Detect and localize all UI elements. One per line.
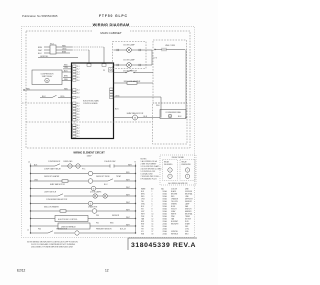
wire labels left of P13 (38, 47, 43, 55)
wire color code table rows (141, 190, 193, 236)
svg-text:J4-2: J4-2 (77, 128, 80, 130)
condenser fan motor M2 (160, 110, 186, 119)
svg-text:YEL: YEL (141, 201, 144, 203)
svg-text:1.5A RUN CAP: 1.5A RUN CAP (104, 160, 116, 163)
svg-text:318045339 REV.A: 318045339 REV.A (131, 242, 196, 249)
wire lights bus (152, 50, 158, 65)
svg-text:J3-5: J3-5 (77, 114, 80, 116)
svg-text:ORG: ORG (62, 48, 67, 50)
svg-text:P60: P60 (156, 105, 159, 107)
board left pin header J1 (73, 65, 76, 81)
svg-text:WHT: WHT (126, 187, 130, 189)
svg-text:J1-3: J1-3 (77, 71, 80, 73)
svg-text:J3-3: J3-3 (77, 108, 80, 110)
ladder right rail N (135, 162, 137, 234)
svg-text:GROUND: GROUND (185, 191, 193, 193)
board left pin labels J1 (77, 66, 80, 82)
svg-text:CONTROL BOARD: CONTROL BOARD (83, 102, 98, 105)
svg-text:Publication No 5995523695: Publication No 5995523695 (22, 14, 58, 18)
legend relay detail A (163, 160, 178, 181)
svg-text:2: 2 (170, 176, 171, 178)
svg-text:J1-2: J1-2 (77, 69, 80, 71)
svg-text:1: 1 (170, 170, 171, 172)
svg-text:J4-4: J4-4 (77, 133, 80, 135)
svg-text:DOOR LAMP: DOOR LAMP (123, 43, 135, 46)
wire P13 row2 (44, 48, 89, 50)
svg-text:RED: RED (64, 88, 69, 90)
svg-text:FTF50 GLPC: FTF50 GLPC (99, 14, 128, 18)
svg-text:WHT: WHT (126, 179, 130, 181)
svg-text:2: 2 (152, 194, 153, 196)
rung 7 mullion heater circuit (30, 205, 136, 213)
svg-text:BLK-18: BLK-18 (120, 229, 126, 231)
legend connector chart dotted box (160, 155, 196, 185)
svg-text:RED: RED (64, 79, 69, 81)
svg-text:DE-ENERG: DE-ENERG (164, 164, 173, 166)
svg-text:RED: RED (62, 45, 67, 47)
part number block frame (128, 238, 197, 250)
rung 8 control circuit (30, 215, 136, 222)
wire drop to board pin top x104 (103, 47, 105, 63)
wire compressor to board upper (62, 70, 72, 72)
svg-text:115V: 115V (87, 156, 92, 158)
rung 9 sensor circuit (30, 222, 136, 229)
svg-text:LIGHT SWITCH: LIGHT SWITCH (44, 191, 57, 193)
svg-text:J1-6: J1-6 (77, 80, 80, 82)
rung 10 thermistor circuit (27, 229, 136, 236)
svg-text:8 POLARIZED PLUG: 8 POLARIZED PLUG (141, 178, 158, 181)
svg-text:P60: P60 (38, 229, 41, 231)
svg-text:DEFROST HEATER: DEFROST HEATER (44, 175, 60, 178)
svg-text:OVERLOAD: OVERLOAD (63, 160, 73, 163)
svg-text:J3-4: J3-4 (77, 111, 80, 113)
svg-text:J3-6: J3-6 (77, 117, 80, 119)
svg-text:9: 9 (152, 211, 153, 213)
svg-text:5: 5 (152, 201, 153, 203)
svg-text:1: 1 (152, 191, 153, 193)
svg-text:RELAY DETAIL: RELAY DETAIL (172, 156, 184, 159)
svg-text:LINE CORD: LINE CORD (165, 45, 176, 47)
svg-text:BROWN: BROWN (171, 194, 178, 196)
svg-text:O/B: O/B (141, 226, 144, 228)
svg-text:18: 18 (152, 234, 154, 236)
svg-text:12: 12 (152, 219, 154, 221)
svg-text:VIOLET: VIOLET (171, 209, 177, 211)
svg-text:R/W: R/W (141, 224, 145, 226)
svg-text:W/B: W/B (141, 234, 144, 236)
lamp DL1 (123, 43, 135, 52)
rung 4 evap fan circuit (30, 183, 136, 191)
svg-text:ORG: ORG (115, 95, 120, 97)
mullion heater R1 (114, 80, 154, 84)
board top pin P2 (102, 64, 106, 67)
svg-text:DOOR LAMP: DOOR LAMP (123, 58, 135, 61)
wire board to right bus (114, 95, 162, 117)
svg-text:J2-3: J2-3 (77, 97, 80, 99)
board top pin P1 (87, 64, 91, 67)
svg-text:J3-1: J3-1 (77, 103, 80, 105)
svg-text:WHT/BLK: WHT/BLK (171, 234, 179, 236)
compartment dashed boundary (26, 121, 153, 123)
svg-text:DISCONNECT POWER BEFORE SERVIC: DISCONNECT POWER BEFORE SERVICING UNIT (31, 247, 74, 249)
svg-text:6: 6 (152, 204, 153, 206)
svg-text:GRN/YEL: GRN/YEL (171, 231, 178, 233)
svg-text:MOTOR: MOTOR (185, 219, 192, 221)
svg-text:DEFROST: DEFROST (185, 199, 193, 201)
svg-text:DEF: DEF (185, 226, 188, 228)
rung 5 door lamps circuit (30, 190, 136, 198)
svg-text:J4-5: J4-5 (77, 136, 80, 138)
rung 1 compressor run circuit (30, 160, 136, 168)
wire P13 row3 (44, 51, 70, 53)
svg-text:12: 12 (105, 269, 109, 273)
svg-text:MULLION HEATER: MULLION HEATER (124, 80, 141, 83)
rung 2 start relay circuit (30, 168, 136, 176)
svg-text:SWITCH: SWITCH (185, 209, 192, 211)
svg-text:J1-4: J1-4 (77, 74, 80, 76)
svg-text:BLK/WHT: BLK/WHT (171, 221, 178, 223)
ladder left rail L1 (28, 162, 31, 234)
svg-text:M: M (134, 118, 136, 120)
svg-text:WHT: WHT (126, 224, 130, 226)
svg-text:TIMER: TIMER (185, 216, 191, 218)
svg-text:COMPRESSOR: COMPRESSOR (41, 73, 55, 75)
evaporator fan motor M1 (114, 112, 153, 120)
svg-text:YELLOW: YELLOW (171, 201, 178, 203)
wire color code table header (141, 188, 189, 191)
svg-text:WHT: WHT (128, 164, 132, 166)
main control board U1 (72, 63, 114, 139)
svg-text:16: 16 (152, 229, 154, 231)
svg-text:WHT: WHT (141, 214, 145, 216)
svg-text:7: 7 (152, 206, 153, 208)
wire P13 row1 (44, 45, 104, 47)
board interior label (83, 100, 99, 106)
svg-text:DOOR LAMPS: DOOR LAMPS (90, 190, 102, 193)
condenser fan dashed box (153, 103, 188, 144)
svg-text:ELECTRONIC MAIN: ELECTRONIC MAIN (83, 100, 99, 103)
svg-text:L1: L1 (27, 230, 29, 232)
main cabinet dashed box (26, 31, 190, 148)
svg-text:CONDENSER FAN: CONDENSER FAN (165, 111, 181, 114)
lamp DL2 (123, 58, 135, 67)
wire lamp DL2 (114, 64, 153, 66)
compressor box (32, 70, 62, 85)
svg-text:RED/WHT: RED/WHT (171, 224, 178, 226)
svg-text:J1-1: J1-1 (77, 66, 80, 68)
svg-text:ORG: ORG (60, 96, 65, 98)
wire compressor to board lower (62, 79, 72, 81)
svg-text:L1: L1 (28, 162, 30, 164)
svg-text:P8: P8 (103, 70, 105, 72)
svg-text:BRN: BRN (38, 47, 43, 49)
board left pin header J2 (73, 89, 76, 138)
svg-text:ORG: ORG (64, 67, 69, 69)
svg-text:MAIN CABINET: MAIN CABINET (100, 31, 122, 35)
svg-text:WHT: WHT (126, 209, 130, 211)
bottom note (27, 242, 78, 249)
wire defrost thermostat lead with switch (40, 95, 72, 98)
node MAIN CABINET label (92, 30, 130, 35)
svg-text:13: 13 (152, 221, 154, 223)
wire condenser fan feed (153, 50, 187, 119)
svg-text:DRAIN HTR: DRAIN HTR (88, 205, 98, 208)
svg-text:ELECTRONIC CONTROL: ELECTRONIC CONTROL (58, 219, 78, 221)
wire dashed compartment boundary lead (22, 102, 72, 104)
svg-text:J2-1: J2-1 (77, 90, 80, 92)
svg-text:P31: P31 (96, 222, 99, 224)
svg-text:SENSOR: SENSOR (112, 215, 120, 217)
wire drop to board pin top x89 (88, 50, 90, 63)
svg-text:2: 2 (187, 176, 188, 178)
svg-text:ENERGIZED: ENERGIZED (182, 164, 192, 166)
svg-text:WHT: WHT (126, 202, 130, 204)
svg-text:J4-3: J4-3 (77, 130, 80, 132)
svg-text:WHITE: WHITE (171, 214, 176, 216)
svg-text:WHT: WHT (126, 194, 130, 196)
svg-text:MULLION HEATER: MULLION HEATER (44, 205, 59, 208)
door switch S1 (114, 70, 154, 73)
svg-text:3: 3 (152, 196, 153, 198)
svg-text:COMPRESSOR: COMPRESSOR (48, 161, 61, 163)
legend notes column (141, 159, 163, 181)
line cord dashed box (153, 40, 187, 103)
wire ground lead (38, 56, 78, 58)
svg-text:15: 15 (152, 226, 154, 228)
schematic section title (73, 152, 105, 158)
svg-text:GREEN: GREEN (171, 204, 178, 206)
rung 6 condenser fan circuit (30, 198, 136, 206)
svg-text:BRN: BRN (62, 51, 67, 53)
svg-text:TSTAT: TSTAT (116, 175, 121, 178)
svg-text:THERMISTOR: THERMISTOR (56, 229, 68, 231)
svg-text:WHT: WHT (126, 217, 130, 219)
rung 3 defrost heater circuit (30, 175, 136, 183)
svg-text:SENSOR: SENSOR (185, 201, 193, 203)
connector P13 (50, 44, 56, 55)
svg-text:BLUE: BLUE (171, 206, 175, 208)
svg-text:J4-1: J4-1 (77, 125, 80, 127)
svg-text:COMP START RELAY: COMP START RELAY (44, 168, 62, 171)
svg-text:GRN/YEL: GRN/YEL (40, 56, 48, 58)
door lamp dashed box (113, 42, 147, 69)
svg-text:J1-5: J1-5 (77, 77, 80, 79)
svg-text:CONDENSER FAN MOTOR: CONDENSER FAN MOTOR (46, 198, 68, 201)
legend relay detail B (180, 160, 195, 181)
svg-text:J3-2: J3-2 (77, 106, 80, 108)
svg-text:EVAP FAN MOTOR: EVAP FAN MOTOR (127, 112, 144, 115)
svg-text:J2-2: J2-2 (77, 92, 80, 94)
svg-text:8: 8 (152, 209, 153, 211)
svg-text:RED: RED (26, 88, 31, 90)
svg-text:ORG: ORG (34, 179, 39, 181)
svg-text:WIRING DIAGRAM: WIRING DIAGRAM (93, 23, 130, 27)
wire thermistor lead (23, 88, 71, 90)
svg-text:P60: P60 (96, 215, 99, 217)
board left pin labels J2 (77, 90, 80, 138)
svg-text:FREEZER SENSOR: FREEZER SENSOR (96, 229, 112, 231)
svg-text:E2/12: E2/12 (17, 269, 26, 273)
svg-text:B/W: B/W (141, 221, 145, 223)
svg-text:LINE: LINE (185, 196, 189, 198)
wire stub to board pin J1-2 (63, 67, 72, 69)
wire stub to board pin J1-5 (63, 76, 72, 78)
board right pin P8 (103, 68, 113, 72)
svg-text:DEFROST TERM: DEFROST TERM (96, 176, 110, 178)
wire stub to board pin J1-1 (63, 65, 72, 67)
svg-text:17: 17 (152, 231, 154, 233)
svg-text:4: 4 (152, 199, 153, 201)
svg-text:EVAP FAN MOTOR: EVAP FAN MOTOR (50, 183, 66, 186)
svg-text:COLOR: COLOR (171, 189, 178, 191)
line cord plug (154, 45, 185, 51)
svg-text:14: 14 (152, 224, 154, 226)
board right pin header J5 (110, 88, 113, 99)
wire lamp DL1 (114, 49, 153, 51)
svg-text:1: 1 (187, 170, 188, 172)
svg-text:J3-7: J3-7 (77, 120, 80, 122)
svg-text:CTRL: CTRL (185, 229, 189, 231)
outer dashed enclosure (22, 27, 195, 238)
svg-text:10: 10 (152, 214, 154, 216)
svg-text:WIRING ELEMENT CIRCUIT: WIRING ELEMENT CIRCUIT (73, 152, 105, 155)
svg-text:11: 11 (152, 216, 154, 218)
svg-text:M: M (46, 81, 48, 83)
